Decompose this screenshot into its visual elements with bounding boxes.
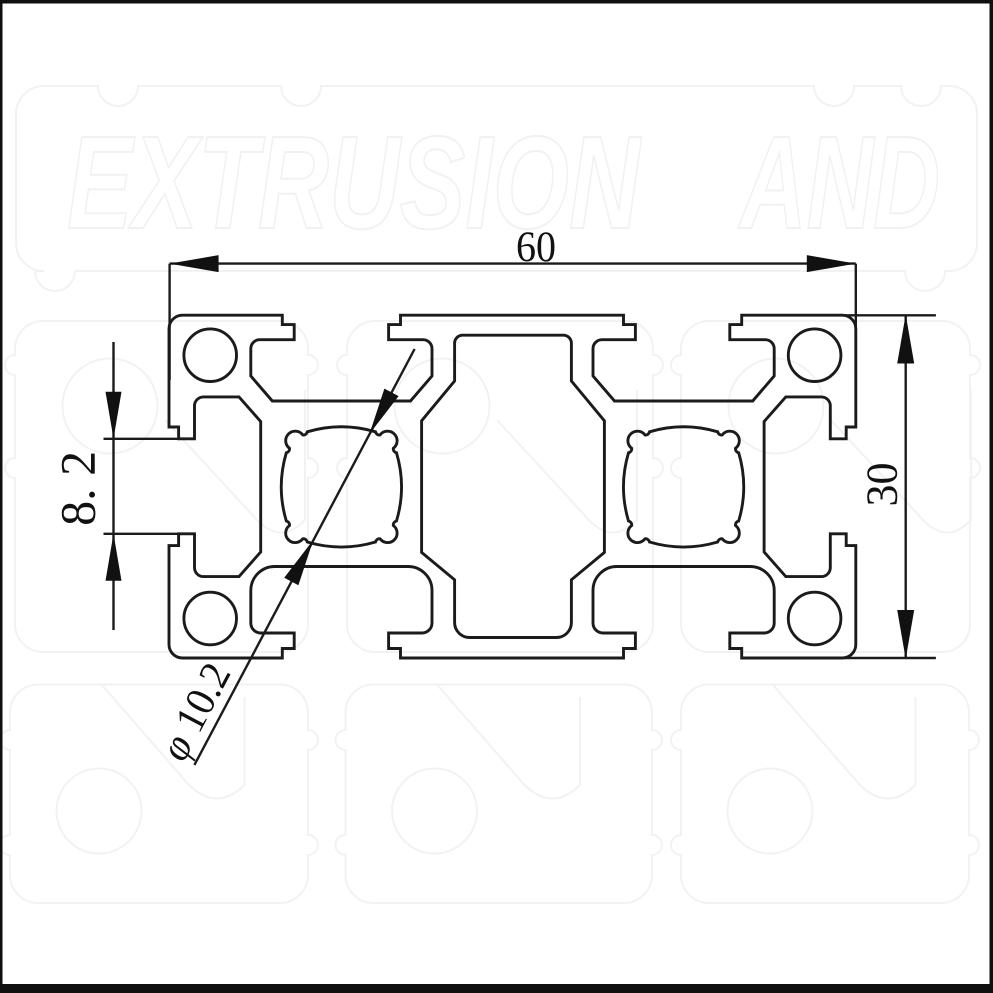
svg-text:AND: AND [738, 109, 940, 256]
svg-text:30: 30 [858, 463, 907, 507]
svg-text:8. 2: 8. 2 [50, 451, 106, 526]
svg-text:60: 60 [516, 224, 556, 271]
